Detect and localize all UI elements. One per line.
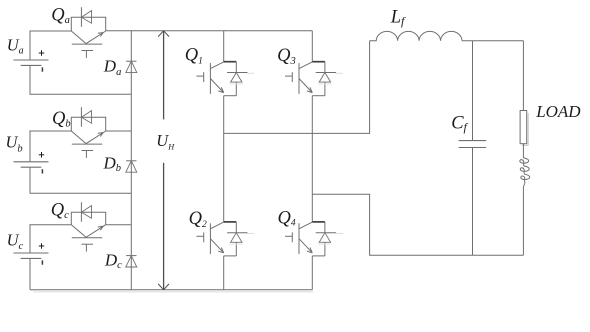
battery U_a [14, 50, 49, 71]
wire: cell-b positive (battery + up to Qb) [30, 131, 71, 162]
wire: load branch bottom [522, 187, 524, 255]
svg-text:Q3: Q3 [277, 46, 296, 67]
svg-text:Db: Db [103, 154, 122, 175]
inductor L_f [370, 31, 462, 40]
svg-text:Cf: Cf [451, 113, 468, 134]
wire: Qc output to bus [106, 224, 132, 226]
voltage arrow U_H (double-headed) [158, 31, 169, 290]
battery U_c [14, 243, 49, 265]
resistor (load R) [520, 111, 528, 146]
svg-text:Dc: Dc [104, 251, 122, 271]
IGBT Q4 (with antiparallel diode) [285, 222, 343, 256]
switch Q_c (with antiparallel diode) [71, 202, 105, 251]
wire: Lf output to load [462, 40, 523, 42]
wire: Cf branch top [472, 41, 474, 141]
wire: cell-c negative (battery - down to bottom rail) [29, 258, 31, 289]
svg-text:Uc: Uc [7, 231, 24, 253]
diode D_a [126, 61, 137, 72]
diode D_c [126, 256, 137, 267]
wire: node A (Q1/Q2 midpoint) to Lf input [224, 41, 370, 134]
svg-text:Q2: Q2 [189, 209, 207, 230]
svg-text:Lf: Lf [390, 8, 406, 29]
wire: load branch top [522, 41, 524, 111]
wire: top DC rail [106, 30, 313, 32]
wire: between load R and load L [522, 144, 524, 158]
switch Q_a (with antiparallel diode) [71, 7, 105, 58]
svg-text:Q4: Q4 [278, 209, 296, 229]
wire: cascade bus (vertical through Da,Db,Dc) [130, 31, 132, 290]
svg-text:LOAD: LOAD [535, 102, 581, 121]
svg-text:Da: Da [103, 57, 122, 78]
IGBT Q2 (with antiparallel diode) [196, 222, 254, 256]
svg-text:Ua: Ua [7, 36, 24, 57]
wire: cell-a negative (battery - down to bus node) [30, 65, 131, 94]
IGBT Q3 (with antiparallel diode) [285, 62, 343, 96]
wire: Cf branch bottom [472, 148, 474, 256]
IGBT Q1 (with antiparallel diode) [196, 62, 254, 96]
wire: bridge leg Q3/Q4 vertical [311, 31, 313, 290]
switch Q_b (with antiparallel diode) [71, 107, 105, 158]
svg-text:Qc: Qc [51, 200, 69, 221]
diode D_b [126, 161, 137, 172]
wire: Qb output to bus [106, 130, 132, 132]
wire: cell-b negative (battery - down to bus node) [30, 167, 131, 193]
wire: bottom DC rail [30, 290, 314, 292]
inductor (load L) [520, 158, 530, 188]
wire: cell-c positive (battery + up to Qc) [30, 225, 71, 253]
svg-text:Qa: Qa [51, 5, 70, 26]
battery U_b [14, 152, 49, 174]
svg-text:UH: UH [156, 131, 175, 152]
svg-text:Q1: Q1 [185, 46, 203, 67]
wire: cell-a positive (battery + up to Qa) [30, 31, 71, 60]
wire: node B (Q3/Q4 midpoint) to bottom-right rail [312, 194, 523, 255]
svg-text:Qb: Qb [52, 109, 71, 130]
wire: bridge leg Q1/Q2 vertical [223, 31, 225, 290]
capacitor C_f [459, 141, 487, 148]
svg-text:Ub: Ub [6, 133, 23, 155]
